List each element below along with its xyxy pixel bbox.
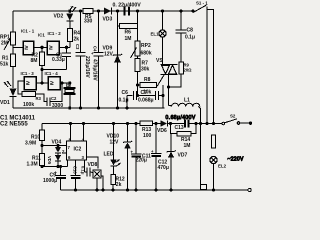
wire [69,42,71,48]
diode VD6 [157,120,167,134]
wire gate to triac [157,75,164,87]
wire [69,21,71,29]
svg-text:C3: C3 [75,44,80,50]
svg-text:IC2: IC2 [74,147,82,153]
svg-text:EL2: EL2 [218,164,227,169]
capacitor C11 [131,124,152,191]
capacitor 0.22u/400V [113,3,142,16]
wire pin7 row [42,145,67,147]
svg-text:12V: 12V [110,140,120,146]
svg-text:12V: 12V [104,52,114,58]
svg-text:L1: L1 [184,98,190,104]
wire pin8 [70,124,72,142]
resistor R11 [27,154,45,168]
LED VD2 [54,6,77,21]
svg-text:3.9M: 3.9M [25,141,36,147]
svg-text:100: 100 [143,133,152,139]
svg-text:C7: C7 [141,90,148,96]
resistor R14 [171,124,197,150]
lamp EL2 [210,156,227,190]
svg-text:VD4: VD4 [52,140,62,146]
svg-text:IC1 - 2: IC1 - 2 [48,31,62,36]
svg-text:2M: 2M [1,41,8,47]
inductor L1 [169,98,201,124]
svg-text:C10: C10 [73,166,78,174]
wire [12,97,14,109]
buzzer B [64,83,76,108]
svg-text:VS: VS [156,58,163,64]
capacitor C8 [176,11,196,62]
svg-text:VD1: VD1 [0,100,10,106]
switch S1-1 top right [193,1,214,124]
svg-text:8M: 8M [31,58,38,64]
capacitor C3 [75,11,90,108]
svg-text:0.1μ: 0.1μ [119,98,129,104]
wire [59,46,70,48]
svg-text:C8: C8 [187,28,194,34]
capacitor C7 [137,90,164,104]
svg-text:470μ: 470μ [158,165,169,171]
svg-text:≥: ≥ [49,45,53,52]
wire L1 branch down [200,124,202,185]
box X component [93,170,103,190]
svg-text:0.68μ/400V: 0.68μ/400V [166,115,196,121]
svg-text:VD8: VD8 [88,162,98,168]
diode VD4 [52,140,62,154]
svg-text:RP2: RP2 [141,43,151,49]
svg-text:IC1: IC1 [38,33,45,38]
svg-text:IC1 - 1: IC1 - 1 [21,29,35,34]
zener VD7 [167,134,188,191]
resistor R13 [140,121,153,139]
resistor R12 [111,166,125,190]
svg-text:1.3M: 1.3M [27,162,38,168]
lamp EL1 [151,11,167,65]
svg-text:680k: 680k [141,51,152,57]
resistor R7 [135,56,150,96]
svg-text:0. 22μ/400V: 0. 22μ/400V [113,3,142,9]
svg-text:R8: R8 [144,77,151,83]
potentiometer RP1 [0,32,16,50]
gate IC1-1 [21,29,45,55]
svg-text:VD2: VD2 [54,14,64,20]
wire [41,70,43,83]
wire IC1-3 input feedback [18,81,24,94]
capacitor C10 [71,160,81,190]
wire top rail [13,10,193,12]
IC2 NE555 [62,138,87,161]
svg-text:C13: C13 [175,125,184,131]
gate IC1-2 [47,31,61,55]
resistor R5 [83,9,93,25]
svg-text:≥: ≥ [25,45,29,52]
diode VD3 [103,8,113,23]
wire [12,67,14,89]
svg-text:VD6: VD6 [157,128,167,134]
capacitor C4 [91,11,104,108]
wire [12,45,14,54]
svg-text:EL1: EL1 [151,32,160,37]
svg-text:R6: R6 [125,30,132,36]
svg-text:2k: 2k [74,37,80,43]
wire upper bottom rail [13,107,165,109]
resistor R1 [0,54,16,68]
svg-text:VD5: VD5 [47,156,52,165]
svg-text:C2: C2 [51,96,57,101]
svg-text:≥: ≥ [50,80,54,87]
zener VD10 [107,124,133,191]
svg-text:~220V: ~220V [228,157,244,163]
svg-text:1M: 1M [125,36,132,42]
node line x137.5 [137,11,139,41]
svg-text:B: B [66,83,70,89]
svg-text:VD3: VD3 [103,16,113,22]
gate IC1-4 [45,71,61,90]
svg-text:C2 NE555: C2 NE555 [0,122,28,128]
capacitor C9 [43,167,66,191]
svg-text:2k: 2k [116,182,122,188]
gate IC1-3 [21,71,37,90]
svg-text:S2: S2 [230,114,236,119]
svg-text:VD7: VD7 [178,153,188,159]
svg-text:0.1μ: 0.1μ [185,35,195,41]
svg-text:20Ω: 20Ω [184,68,193,73]
svg-text:220μ/16V: 220μ/16V [84,56,90,78]
resistor R9 [169,62,193,87]
wire [34,46,48,48]
diode VD5 [47,153,61,167]
resistor R2 [31,47,45,69]
wire bottom rail [61,189,249,191]
wire pin output right [87,157,99,169]
svg-text:330: 330 [84,19,93,25]
capacitor C2 [36,83,64,109]
wire R2/C1 bottom link [42,69,67,71]
zener VD9 [103,11,123,108]
wire pin4 [83,124,85,142]
potentiometer RP2 [131,41,152,58]
fuse above EL2 [211,135,215,148]
svg-text:1M: 1M [184,143,191,149]
svg-text:470μ/16V: 470μ/16V [92,59,98,81]
svg-text:C6: C6 [122,90,129,96]
resistor R3 [22,92,42,109]
capacitor C1 [52,47,71,69]
wire [36,82,48,84]
svg-text:0.1μ: 0.1μ [81,166,86,175]
LED VD1 [0,81,17,106]
svg-text:51k: 51k [0,62,9,68]
wire IC1-4 output [60,82,70,84]
wire IC1-1 input [13,46,23,48]
svg-text:IC1 - 4: IC1 - 4 [45,71,59,76]
svg-text:+: + [91,51,94,56]
triac VS [161,65,178,106]
switch S2 bottom right [222,114,250,125]
svg-text:LED: LED [104,152,114,158]
svg-text:R3: R3 [36,96,42,101]
wire IC2 supply row [42,123,140,125]
wire pin6 stub [67,160,69,167]
LED VD8 [88,124,121,169]
capacitor C13 [175,120,189,132]
svg-text:100k: 100k [23,102,34,108]
resistor R6 [118,24,138,43]
svg-text:220μ: 220μ [136,158,147,164]
resistor R4 [67,29,80,43]
svg-text:IC1 - 3: IC1 - 3 [21,71,35,76]
svg-text:1000μ: 1000μ [43,178,57,184]
wire left rail [12,11,14,32]
svg-text:0.33μ: 0.33μ [52,57,65,63]
svg-text:0.068μ: 0.068μ [138,98,154,104]
wire pin2 stub [62,152,67,154]
svg-text:3300: 3300 [52,103,63,109]
svg-text:≥: ≥ [26,80,30,87]
wire pin6 row [42,166,68,168]
svg-text:30k: 30k [141,67,150,73]
capacitor C12 [151,124,169,191]
capacitor 0.1u [81,166,94,177]
resistor R10 [25,124,45,154]
svg-text:S1 - 1: S1 - 1 [196,1,208,6]
wire pin3 stub [84,160,86,172]
capacitor C6 [119,90,137,108]
resistor R8 [138,77,157,96]
